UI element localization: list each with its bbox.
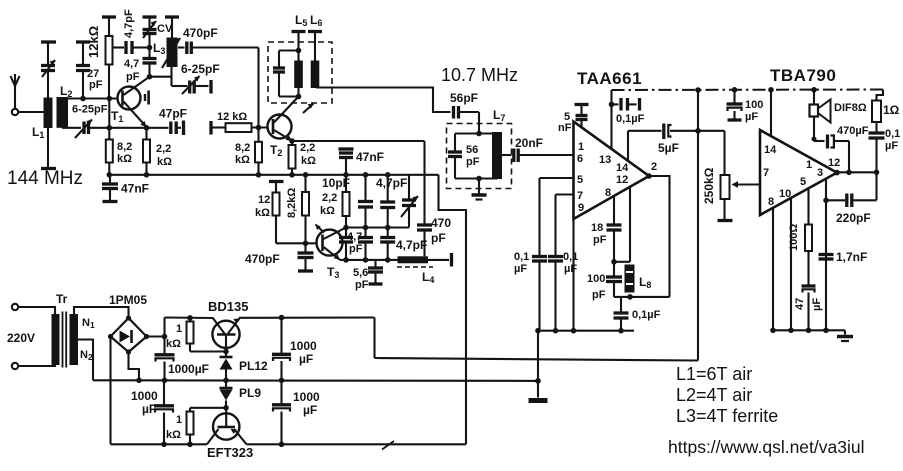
svg-text:µF: µF xyxy=(514,263,527,275)
svg-text:20nF: 20nF xyxy=(515,136,543,150)
node L5 top xyxy=(296,48,302,54)
svg-text:0,1: 0,1 xyxy=(514,251,529,263)
wire L3 bottom to collector node and trimmer xyxy=(170,67,172,86)
node T2 base junction xyxy=(256,125,262,131)
svg-text:47nF: 47nF xyxy=(121,182,149,196)
wire tank top xyxy=(614,261,630,263)
svg-text:2: 2 xyxy=(651,161,657,173)
resistor 1 Ohm xyxy=(872,90,883,133)
svg-text:250kΩ: 250kΩ xyxy=(702,167,716,204)
node tank bottom xyxy=(627,294,633,300)
capacitor tank (L5 parallel) xyxy=(273,51,285,97)
svg-text:8: 8 xyxy=(605,187,611,199)
svg-text:47nF: 47nF xyxy=(356,150,384,164)
capacitor 4,7pF (upper right) xyxy=(380,175,395,228)
wire positive feed riser xyxy=(697,90,699,361)
svg-text:6: 6 xyxy=(577,153,583,165)
terminal bar below 250k xyxy=(718,219,733,222)
wire tank top xyxy=(279,49,299,51)
node 12k on base rail xyxy=(107,96,113,102)
capacitor 1000uF (second) xyxy=(154,380,174,444)
node T2 collector tap xyxy=(296,94,302,100)
wire crystal ladder top node xyxy=(346,226,388,228)
svg-text:4,7pF: 4,7pF xyxy=(123,9,135,38)
node 1k top xyxy=(187,315,193,321)
svg-text:1000µF: 1000µF xyxy=(168,362,209,376)
wire supply rail dash-dot xyxy=(612,89,884,92)
svg-text:pF: pF xyxy=(593,234,607,246)
terminal bar above L3 xyxy=(165,15,179,18)
terminal bar above L6 xyxy=(308,30,322,33)
svg-text:CV: CV xyxy=(157,23,173,35)
resistor 12k (T3 base) xyxy=(273,182,306,244)
dashed box L7 xyxy=(447,124,512,189)
svg-text:1,7nF: 1,7nF xyxy=(836,250,867,264)
coil L4 xyxy=(398,256,429,263)
svg-text:pF: pF xyxy=(592,289,606,301)
capacitor 0,1uF (pin13) xyxy=(612,98,637,111)
svg-text:8,2: 8,2 xyxy=(117,141,132,153)
slash mark on bus xyxy=(382,441,394,450)
node T1 collector xyxy=(147,74,153,80)
terminal bar below 5,6pF xyxy=(369,282,383,285)
op-amp U1 TAA661 xyxy=(574,122,650,220)
svg-text:100Ω: 100Ω xyxy=(788,224,800,251)
trimmer 6-25pF in L2 tank bottom xyxy=(62,120,109,139)
svg-text:1000: 1000 xyxy=(293,390,320,404)
transistor T2 xyxy=(268,97,299,142)
capacitor 1000uF (fourth) xyxy=(272,380,291,444)
capacitor 5nF xyxy=(575,105,589,128)
trimmer 6-25pF (stage 1 output) xyxy=(172,76,209,94)
wire pin 7 xyxy=(556,193,574,195)
resistor 1k (EFT bias) xyxy=(187,408,227,445)
node plus rail third cap xyxy=(279,315,285,321)
svg-text:2,2: 2,2 xyxy=(156,143,171,155)
resistor 100 Ohm (pin 5) xyxy=(805,189,812,285)
resistor 1k (BD135 bias) xyxy=(187,318,227,352)
svg-text:nF: nF xyxy=(558,122,572,134)
capacitor 4,7pF (ladder right lower) xyxy=(380,228,395,260)
svg-text:0,1µF: 0,1µF xyxy=(616,113,645,125)
wire L4 output xyxy=(428,259,449,261)
node 220pF branch xyxy=(823,198,829,204)
svg-text:56pF: 56pF xyxy=(450,91,478,105)
capacitor 10pF xyxy=(358,175,373,228)
svg-text:pF: pF xyxy=(349,243,363,255)
svg-text:1PM05: 1PM05 xyxy=(109,293,147,307)
svg-text:L2=4T air: L2=4T air xyxy=(676,385,752,405)
coil L2 xyxy=(57,97,69,128)
svg-text:220V: 220V xyxy=(7,331,35,345)
node rail junctions xyxy=(107,172,391,178)
arrow near T3 xyxy=(316,225,325,233)
terminal bar above 12k xyxy=(102,15,116,18)
svg-text:kΩ: kΩ xyxy=(255,207,270,219)
transistor T3 xyxy=(306,228,347,260)
terminal bar below 47nF xyxy=(103,200,118,203)
svg-text:1: 1 xyxy=(806,159,812,171)
capacitor 4,7pF vertical xyxy=(143,48,157,77)
svg-text:1: 1 xyxy=(176,323,182,335)
svg-text:PL9: PL9 xyxy=(239,386,261,400)
node ladder mid xyxy=(363,225,369,231)
wire pin 8 + capacitor 18pF xyxy=(607,196,622,262)
wire tank bottom xyxy=(614,296,670,298)
svg-text:kΩ: kΩ xyxy=(157,156,172,168)
dashed box L5 L6 xyxy=(268,42,332,103)
wire bridge lower corner to mid rail xyxy=(129,352,140,380)
wire pin 5 xyxy=(540,177,574,179)
svg-text:1Ω: 1Ω xyxy=(883,103,900,117)
svg-text:PL12: PL12 xyxy=(239,359,268,373)
svg-text:56: 56 xyxy=(466,144,478,156)
wire filter top xyxy=(455,132,497,134)
svg-text:14: 14 xyxy=(616,162,629,174)
svg-text:8,2kΩ: 8,2kΩ xyxy=(286,188,298,218)
node mid rail end xyxy=(535,378,541,384)
wire pin 2 to tank bottom xyxy=(649,176,670,297)
capacitor 27pF xyxy=(76,42,90,99)
capacitor 100uF xyxy=(727,90,743,119)
resistor 8,2k (T2) xyxy=(255,128,262,175)
terminal 220V bottom xyxy=(12,363,18,369)
capacitor 4.7pF horizontal (CV branch) xyxy=(113,41,150,54)
node bus junctions xyxy=(535,328,624,334)
svg-text:12kΩ: 12kΩ xyxy=(86,26,101,58)
node mid rail join xyxy=(136,378,142,384)
ground (L7 filter) xyxy=(472,179,487,200)
svg-text:4,7pF: 4,7pF xyxy=(396,238,427,252)
node T3 collector xyxy=(343,225,349,231)
capacitor 1000uF (third) xyxy=(272,318,291,381)
wire IF output row xyxy=(340,259,398,261)
svg-text:µF: µF xyxy=(299,352,313,366)
terminal bar 47pF output xyxy=(182,121,185,136)
coil L8 xyxy=(625,265,635,293)
svg-text:kΩ: kΩ xyxy=(320,205,335,217)
svg-text:kΩ: kΩ xyxy=(235,154,250,166)
wire antenna to L1 xyxy=(18,111,43,113)
wire bottom negative bus (left) xyxy=(111,443,208,445)
terminal bar above 27pF xyxy=(76,40,90,43)
resistor 2,2k (T3 collector) xyxy=(343,175,350,228)
terminal bar above 12k xyxy=(269,180,284,183)
terminal bar above L5 xyxy=(292,30,306,33)
diode PL12 xyxy=(220,352,233,381)
svg-text:µF: µF xyxy=(564,263,577,275)
wire bottom negative bus (right) xyxy=(247,443,467,445)
svg-text:pF: pF xyxy=(355,279,369,291)
capacitor 0,1uF (output) xyxy=(869,133,885,172)
wire 470pF down to T2 base xyxy=(257,48,259,128)
svg-text:kΩ: kΩ xyxy=(166,429,181,441)
ground (main) xyxy=(529,381,548,401)
svg-text:5µF: 5µF xyxy=(658,141,679,155)
svg-text:10.7 MHz: 10.7 MHz xyxy=(441,65,518,85)
svg-text:12 kΩ: 12 kΩ xyxy=(217,111,247,123)
svg-text:100: 100 xyxy=(745,99,763,111)
diode PL9 xyxy=(220,380,233,408)
coil L6 xyxy=(311,32,320,89)
wire plus rail right of BD135 xyxy=(239,316,375,318)
svg-text:1: 1 xyxy=(176,414,182,426)
capacitor 1,7nF xyxy=(819,255,834,260)
wire TAA ground bus xyxy=(538,330,634,332)
capacitor 47pF (stage 1 output) xyxy=(171,122,181,135)
wire mid (0V) rail xyxy=(93,379,538,382)
transistor Q2 EFT323 xyxy=(207,408,247,445)
svg-text:pF: pF xyxy=(431,231,446,245)
terminal bar T2 input xyxy=(209,121,212,135)
trimmer capacitor across L1 xyxy=(41,42,55,77)
svg-text:2,2: 2,2 xyxy=(322,192,337,204)
svg-text:DIF8Ω: DIF8Ω xyxy=(834,102,867,114)
svg-text:12: 12 xyxy=(828,157,840,169)
resistor 12k (T1 base) xyxy=(106,17,113,99)
svg-text:220pF: 220pF xyxy=(836,211,871,225)
arrow L6 tuning xyxy=(303,104,314,114)
capacitor 470pF (T3 base) xyxy=(298,243,314,269)
svg-text:kΩ: kΩ xyxy=(166,338,181,350)
bridge rectifier 1PM05 xyxy=(108,315,149,354)
svg-text:14: 14 xyxy=(764,144,777,156)
svg-text:µF: µF xyxy=(745,111,758,123)
terminal bar right of trimmer xyxy=(209,80,212,94)
capacitor (ladder mid lower) xyxy=(358,228,373,260)
svg-text:12: 12 xyxy=(258,194,270,206)
svg-text:BD135: BD135 xyxy=(208,299,248,314)
wire mixer injection (T2 emitter to 470pF/L4) xyxy=(292,140,425,142)
svg-text:L1=6T air: L1=6T air xyxy=(676,364,752,384)
wire L1 top column xyxy=(47,71,49,98)
node 5uF junction xyxy=(695,128,701,134)
wire pin 12 to tank xyxy=(629,187,631,262)
svg-text:8: 8 xyxy=(768,196,774,208)
svg-text:3: 3 xyxy=(817,167,823,179)
svg-text:470pF: 470pF xyxy=(245,252,280,266)
ground (TBA790) xyxy=(837,330,853,341)
terminal 220V top xyxy=(12,304,18,310)
wire pin 8 xyxy=(772,208,774,330)
node output apex xyxy=(834,170,840,176)
wire secondary top to bridge xyxy=(74,307,129,318)
wire pin 10 xyxy=(790,198,792,330)
svg-text:https://www.qsl.net/va3iul: https://www.qsl.net/va3iul xyxy=(668,437,864,457)
node mid rail third cap xyxy=(279,378,285,384)
node PL12 mid rail xyxy=(223,378,229,384)
coil L1 xyxy=(44,98,53,129)
svg-text:8,2: 8,2 xyxy=(235,142,250,154)
wire plus riser xyxy=(163,318,165,337)
terminal bar below 100uF xyxy=(728,118,742,121)
capacitor 5uF xyxy=(628,124,725,140)
wire tank bottom xyxy=(279,95,299,97)
svg-text:470: 470 xyxy=(431,216,451,230)
resistor 12k horizontal (T2 base) xyxy=(211,123,268,132)
svg-text:47pF: 47pF xyxy=(159,107,187,121)
wire pin 14 supply xyxy=(770,90,772,137)
node bus 1000uF xyxy=(161,442,167,448)
terminal bar below 470pF xyxy=(298,269,313,272)
capacitor 470pF (to T2) xyxy=(178,42,259,55)
terminal bar L4 right xyxy=(450,253,453,267)
svg-text:7: 7 xyxy=(577,190,583,202)
node bus junctions xyxy=(770,328,829,334)
wire filter bottom xyxy=(455,177,497,179)
node tank top xyxy=(611,259,617,265)
svg-text:pF: pF xyxy=(466,156,480,168)
wire plus rail to BD135 xyxy=(165,316,214,319)
node filter top xyxy=(476,131,482,137)
wire collector node to L3 column xyxy=(150,76,172,78)
node 27pF on base rail xyxy=(80,96,86,102)
svg-text:9: 9 xyxy=(578,202,584,214)
wire mains bottom xyxy=(18,364,55,366)
transistor Q1 BD135 xyxy=(212,318,239,351)
node rail junctions xyxy=(695,87,817,93)
capacitor 47nF (rail bypass) xyxy=(102,175,118,200)
node 470uF drop xyxy=(846,170,852,176)
svg-text:kΩ: kΩ xyxy=(117,153,132,165)
capacitor 0,1uF (pin5) xyxy=(532,178,547,331)
wire bus to mid rail xyxy=(537,331,539,381)
svg-text:18: 18 xyxy=(591,222,603,234)
capacitor 4,7 pF (feedback left) xyxy=(339,228,353,260)
wire L6 to 10.7MHz filter xyxy=(316,88,451,113)
coil L3 xyxy=(162,17,180,68)
coil L7 xyxy=(492,132,502,179)
wire pin 14 xyxy=(627,131,629,161)
capacitor 20nF xyxy=(502,149,574,163)
node T3 base xyxy=(303,241,309,247)
svg-text:L3=4T ferrite: L3=4T ferrite xyxy=(676,406,778,426)
terminal bar above L1 trimmer xyxy=(41,40,56,43)
svg-text:1: 1 xyxy=(578,141,584,153)
node CV junction xyxy=(147,45,153,51)
svg-text:4,7: 4,7 xyxy=(124,58,139,70)
node plus junction xyxy=(162,334,168,340)
potentiometer 250k xyxy=(721,175,761,219)
wire output xyxy=(837,171,877,173)
node bus fourth cap xyxy=(279,442,285,448)
svg-text:6-25pF: 6-25pF xyxy=(72,104,108,116)
antenna xyxy=(11,74,20,115)
svg-text:0,1µF: 0,1µF xyxy=(632,309,661,321)
node mid rail 1000uF xyxy=(162,378,168,384)
wire rail to negative feed xyxy=(439,175,467,445)
resistor 8,2k (T3) xyxy=(302,175,309,244)
wire L2 tank right side xyxy=(108,99,110,128)
svg-text:4,7pF: 4,7pF xyxy=(376,176,407,190)
trimmer CV xyxy=(143,17,157,48)
node T1 emitter / tank corner xyxy=(107,125,113,131)
node 2,2k top xyxy=(144,125,150,131)
capacitor 0,1uF (tank) xyxy=(614,297,629,331)
svg-text:TAA661: TAA661 xyxy=(577,69,642,88)
node pin 2 output xyxy=(646,173,652,179)
svg-text:5: 5 xyxy=(577,174,583,186)
terminal bar below L1 xyxy=(41,167,56,170)
svg-text:5,6: 5,6 xyxy=(353,267,368,279)
svg-text:144 MHz: 144 MHz xyxy=(7,168,83,189)
svg-text:7: 7 xyxy=(763,167,769,179)
svg-text:470pF: 470pF xyxy=(183,26,218,40)
svg-text:1000: 1000 xyxy=(131,389,158,403)
dashed line under L4 xyxy=(397,266,433,268)
capacitor 56pF xyxy=(454,106,480,134)
capacitor 47uF xyxy=(802,286,816,330)
wire pin 9 xyxy=(572,219,574,331)
svg-text:Tr: Tr xyxy=(56,292,68,306)
svg-text:pF: pF xyxy=(89,79,103,91)
svg-text:TBA790: TBA790 xyxy=(770,66,836,85)
terminal bar right of 0,1uF xyxy=(638,98,641,111)
svg-text:6-25pF: 6-25pF xyxy=(181,62,220,76)
node output junctions xyxy=(343,257,390,263)
trimmer (oscillator) xyxy=(388,175,418,228)
wire positive supply line xyxy=(375,358,699,361)
wire emitter row xyxy=(109,127,168,129)
svg-text:12: 12 xyxy=(616,174,628,186)
svg-text:2,2: 2,2 xyxy=(300,142,315,154)
svg-text:µF: µF xyxy=(885,140,898,152)
svg-text:10pF: 10pF xyxy=(322,176,350,190)
wire mains top xyxy=(18,307,55,315)
node 0,1uF tap xyxy=(609,102,615,108)
svg-text:µF: µF xyxy=(142,402,156,416)
svg-text:100: 100 xyxy=(587,273,605,285)
wire pin 3 feedback column xyxy=(825,179,827,330)
svg-text:µF: µF xyxy=(811,298,823,311)
wire T1 base rail (L2 top to T1) xyxy=(57,97,118,99)
svg-text:pF: pF xyxy=(126,71,140,83)
transformer Tr xyxy=(52,312,79,368)
svg-text:1000: 1000 xyxy=(290,339,317,353)
node T2 emitter xyxy=(289,138,295,144)
op-amp U2 TBA790 xyxy=(760,130,837,215)
resistor 8,2k (T1 emitter) xyxy=(106,128,113,175)
capacitor 47nF (mixer rail) xyxy=(339,149,354,175)
node 1k bottom xyxy=(187,442,193,448)
wire TBA ground bus xyxy=(773,329,845,331)
svg-text:10: 10 xyxy=(779,188,791,200)
svg-text:5: 5 xyxy=(800,176,806,188)
capacitor 5,6pF xyxy=(368,260,383,283)
transistor T1 xyxy=(118,77,150,127)
coil L5 xyxy=(294,32,303,97)
capacitor 100pF xyxy=(606,262,622,297)
wire plus rail corner to supply line xyxy=(373,318,375,359)
svg-text:13: 13 xyxy=(599,154,611,166)
wire secondary tap to mid rail xyxy=(78,340,93,381)
node speaker bottom xyxy=(812,137,817,142)
capacitor 470pF (injection) xyxy=(417,141,432,256)
svg-text:47: 47 xyxy=(794,298,806,310)
wire bridge plus output xyxy=(147,335,165,337)
capacitor 56pF (tank) xyxy=(448,134,462,179)
wire L1 bottom xyxy=(47,128,49,167)
node 0,1uF drop xyxy=(874,170,880,176)
svg-text:470µF: 470µF xyxy=(837,125,869,137)
capacitor 1000uF (first) xyxy=(155,337,175,381)
node BD135 base xyxy=(223,349,229,355)
svg-text:EFT323: EFT323 xyxy=(207,445,253,460)
wire pin 13 supply column xyxy=(610,90,612,149)
resistor 2,2k (T1) xyxy=(143,128,150,175)
resistor 2,2k (T2 emitter) xyxy=(289,141,296,175)
speaker DIF8 xyxy=(810,90,831,141)
